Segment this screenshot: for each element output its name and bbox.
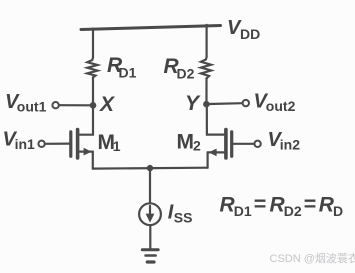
equation label RD1 = RD2 = RD [220, 192, 344, 219]
svg-text:in1: in1 [15, 136, 35, 152]
resistor RD2 [201, 57, 211, 79]
svg-text:X: X [99, 93, 116, 116]
wire left branch from rail to RD1 [92, 29, 94, 58]
svg-text:SS: SS [174, 210, 193, 226]
wire node X down to M1 drain [79, 105, 93, 134]
wire node Y to Vout2 terminal [209, 102, 242, 105]
transistor M2 [208, 130, 232, 158]
svg-text:out1: out1 [17, 99, 47, 115]
wire VDD supply rail [81, 26, 221, 30]
ground [142, 250, 158, 262]
resistor RD1 [87, 58, 97, 78]
svg-text:1: 1 [113, 138, 121, 154]
wire current source to ground [149, 226, 151, 250]
wire right branch from rail to RD2 [206, 25, 208, 57]
transistor M1 [71, 130, 93, 158]
svg-text:D1: D1 [119, 65, 137, 81]
wire Vin1 terminal to M1 gate [45, 143, 69, 145]
svg-text:in2: in2 [280, 137, 300, 153]
wire M2 gate to Vin2 terminal [233, 143, 254, 145]
svg-text:DD: DD [240, 26, 260, 42]
wire RD1 to node X [92, 78, 94, 106]
wire Vout1 terminal to node X [59, 104, 90, 106]
svg-text:CSDN @烟波蓑衣: CSDN @烟波蓑衣 [270, 251, 355, 265]
svg-text:Y: Y [185, 92, 201, 115]
svg-text:D2: D2 [284, 203, 302, 219]
svg-text:D2: D2 [177, 66, 195, 82]
svg-text:=: = [304, 192, 317, 216]
node X junction dot [90, 102, 97, 109]
node Y junction dot [203, 101, 210, 108]
svg-text:D: D [333, 203, 343, 219]
wire node Y down to M2 drain [207, 104, 225, 134]
terminal circle Vin1 [38, 141, 44, 147]
terminal circle Vin2 [254, 141, 260, 147]
tail node junction dot [147, 165, 153, 171]
terminal circle Vout1 [52, 102, 58, 108]
wire tail junction down to current source [149, 168, 151, 202]
svg-text:2: 2 [193, 137, 201, 153]
wire tail line joining sources [93, 167, 208, 170]
svg-text:out2: out2 [266, 98, 296, 114]
wire M2 source down to tail [207, 152, 209, 167]
svg-text:D1: D1 [234, 203, 252, 219]
svg-text:=: = [254, 192, 267, 216]
svg-text:M: M [177, 130, 195, 153]
wire RD2 to node Y [205, 79, 207, 105]
wire M1 source down to tail [92, 152, 94, 169]
current source ISS [139, 203, 161, 225]
terminal circle Vout2 [243, 100, 249, 106]
